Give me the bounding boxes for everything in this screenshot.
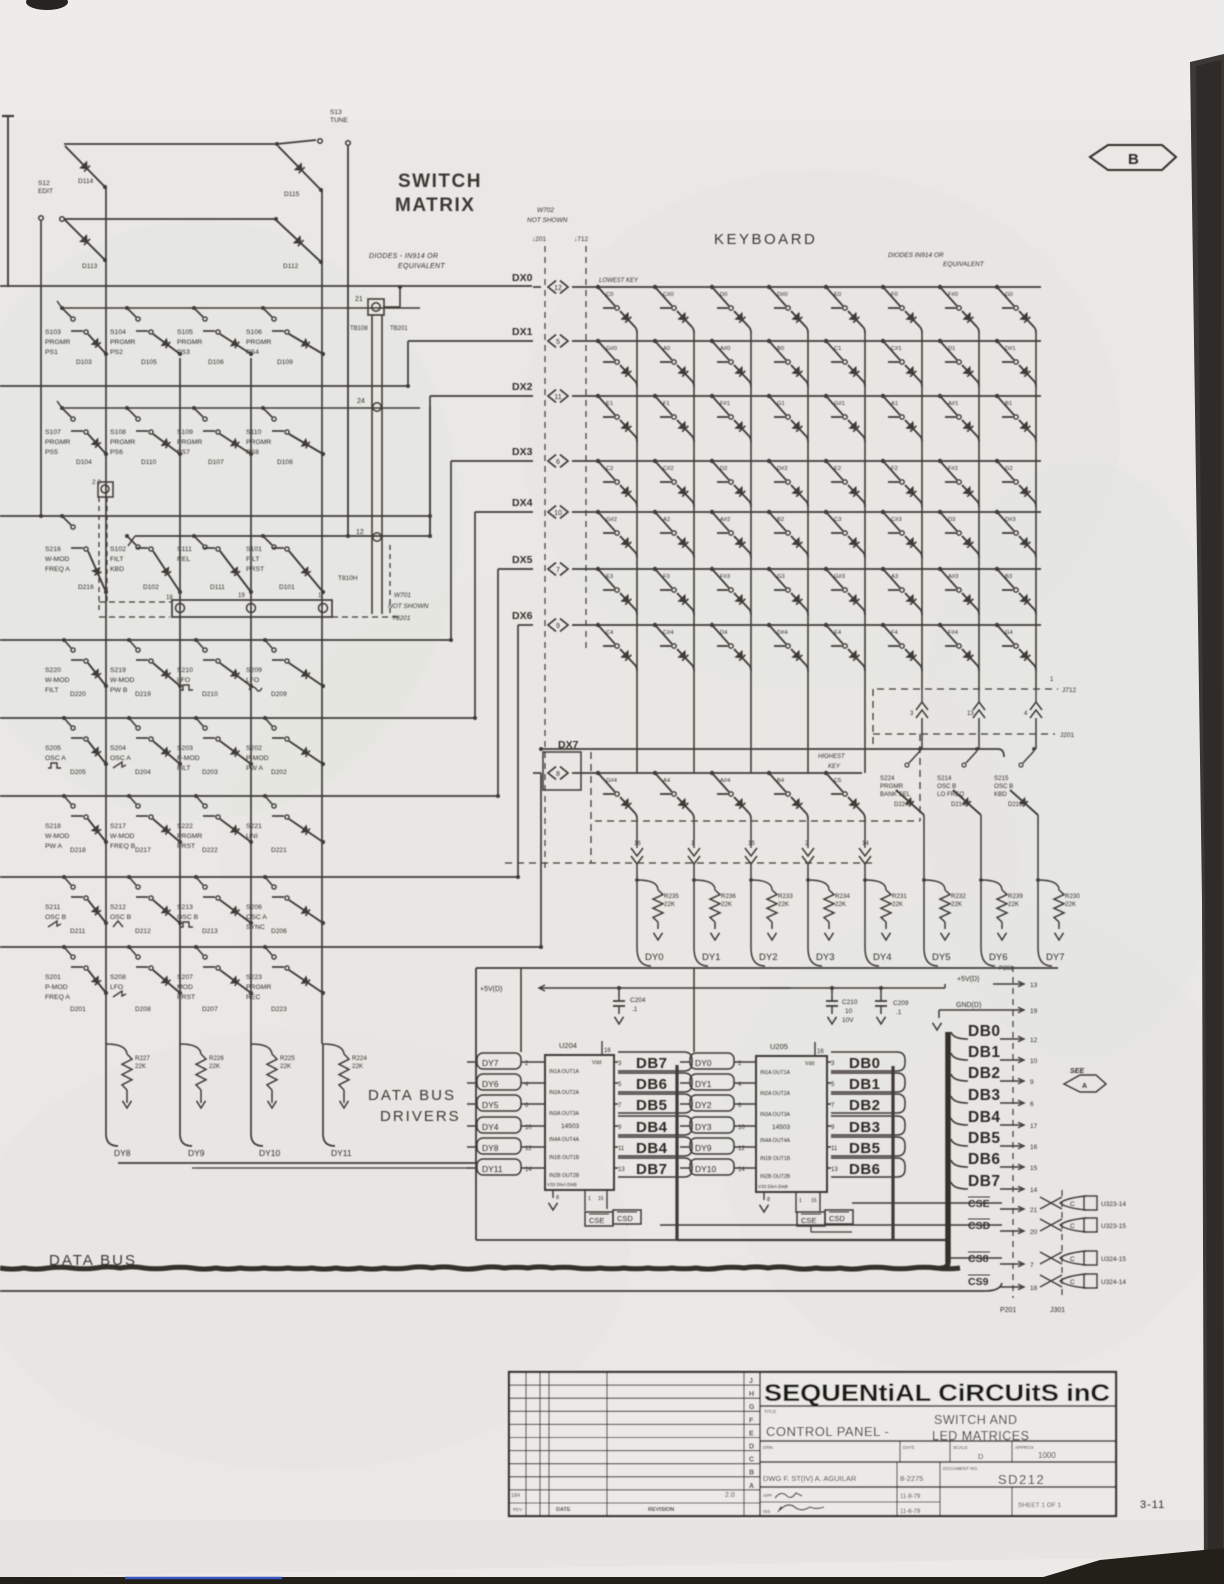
svg-text:F#1: F#1 xyxy=(720,401,730,407)
logo SEQUENTIAL CIRCUITS INC xyxy=(760,1405,1116,1407)
keyboard switch E0 xyxy=(824,285,847,310)
keyboard diode DE4 xyxy=(848,649,863,665)
svg-text:DY9: DY9 xyxy=(188,1148,205,1158)
svg-text:18: 18 xyxy=(166,595,173,601)
svg-text:DY8: DY8 xyxy=(114,1148,131,1158)
svg-text:G2: G2 xyxy=(1005,466,1013,472)
svg-text:11: 11 xyxy=(618,1146,625,1152)
svg-text:B0: B0 xyxy=(777,346,784,352)
svg-text:C: C xyxy=(1070,1201,1075,1208)
svg-text:G1: G1 xyxy=(777,401,785,407)
wire keyboard column 5 to DY bus elbow xyxy=(923,858,925,948)
keyboard switch D1 xyxy=(938,339,961,364)
svg-text:S101: S101 xyxy=(246,546,262,553)
keyboard diode DF#1 xyxy=(734,420,749,436)
svg-text:SD212: SD212 xyxy=(998,1472,1045,1487)
diode D114 xyxy=(65,146,105,187)
svg-text:D223: D223 xyxy=(271,1006,287,1013)
svg-text:G#1: G#1 xyxy=(834,401,845,407)
svg-text:B: B xyxy=(1128,151,1139,168)
keyboard switch E4 xyxy=(824,623,847,648)
svg-text:KBD: KBD xyxy=(994,791,1007,798)
keyboard switch C#4 xyxy=(653,623,676,648)
output DB6 pin 5 of U204 xyxy=(614,1073,692,1093)
svg-text:F: F xyxy=(749,1417,754,1424)
svg-text:D102: D102 xyxy=(143,584,159,591)
svg-text:D211: D211 xyxy=(70,928,86,935)
diode D106 xyxy=(208,334,253,366)
svg-text:E1: E1 xyxy=(606,401,613,407)
svg-text:C209: C209 xyxy=(893,1000,909,1007)
switch S221 UNI xyxy=(246,794,289,840)
svg-text:22K: 22K xyxy=(280,1063,292,1070)
svg-text:18: 18 xyxy=(1030,1285,1038,1292)
svg-text:C3: C3 xyxy=(834,517,841,523)
wire row 6 bus line xyxy=(0,795,498,797)
svg-text:P201: P201 xyxy=(1000,1307,1016,1314)
svg-text:S108: S108 xyxy=(110,429,126,436)
svg-text:S204: S204 xyxy=(110,745,126,752)
svg-text:R239: R239 xyxy=(1008,893,1023,900)
keyboard switch D4 xyxy=(710,623,733,648)
svg-text:P-MOD: P-MOD xyxy=(45,984,68,991)
resistor R224 22K xyxy=(323,1044,367,1108)
switch S105 PRGMR PS3 xyxy=(177,306,220,356)
input tag DY7 pin 2 of U204 xyxy=(467,1053,545,1069)
svg-text:J201: J201 xyxy=(1060,732,1074,739)
svg-text:EDIT: EDIT xyxy=(38,188,53,195)
svg-text:F2: F2 xyxy=(891,466,898,472)
svg-text:DB1: DB1 xyxy=(968,1044,1001,1061)
wire column 2 below DX7 xyxy=(750,819,752,840)
svg-text:DY4: DY4 xyxy=(482,1122,499,1132)
svg-text:SHEET 1 OF 1: SHEET 1 OF 1 xyxy=(1018,1502,1062,1509)
node CSE P201 pin 21 xyxy=(968,1197,1038,1214)
keyboard switch F2 xyxy=(881,459,904,484)
keyboard diode DA0 xyxy=(677,365,692,381)
svg-text:D202: D202 xyxy=(271,769,287,776)
svg-text:DB4: DB4 xyxy=(636,1119,668,1136)
keyboard switch G#4 xyxy=(596,771,619,796)
keyboard diode DC#4 xyxy=(677,649,692,665)
svg-text:OSC B: OSC B xyxy=(937,783,956,790)
wire column 1 lower to DY8 elbow xyxy=(106,1044,118,1146)
svg-text:D110: D110 xyxy=(141,459,157,466)
keyboard diode DB0 xyxy=(791,365,806,381)
wire keyboard column 2 to DY bus elbow xyxy=(750,864,752,948)
keyboard diode DA1 xyxy=(905,420,920,436)
dashed wire right of TB xyxy=(389,545,391,614)
keyboard switch A#0 xyxy=(710,339,733,364)
connector DX5 pin 7 xyxy=(548,563,556,576)
svg-text:8-2275: 8-2275 xyxy=(900,1474,923,1483)
svg-text:1: 1 xyxy=(588,1196,591,1202)
svg-text:FILT: FILT xyxy=(177,765,190,772)
svg-text:DB5: DB5 xyxy=(968,1130,1001,1147)
svg-text:E0: E0 xyxy=(834,292,841,298)
diode D209 xyxy=(271,663,325,698)
svg-text:DB3: DB3 xyxy=(968,1087,1001,1104)
node CS9 P201 pin 18 xyxy=(968,1275,1038,1292)
svg-text:S102: S102 xyxy=(110,546,126,553)
svg-text:CSD: CSD xyxy=(829,1214,845,1223)
svg-text:P-MOD: P-MOD xyxy=(246,755,269,762)
switch S107 PRGMR PS5 xyxy=(45,406,88,456)
keyboard diode DA#1 xyxy=(962,420,977,436)
title block row dwg number xyxy=(760,1486,1116,1488)
svg-text:D3: D3 xyxy=(948,517,955,523)
svg-text:PW B: PW B xyxy=(110,687,128,694)
svg-text:D216: D216 xyxy=(78,584,94,591)
svg-text:7: 7 xyxy=(1030,1262,1034,1269)
svg-text:FILT: FILT xyxy=(246,556,259,563)
svg-text:DY7: DY7 xyxy=(1046,952,1064,963)
svg-text:OSC A: OSC A xyxy=(110,755,131,762)
diode D102 xyxy=(143,551,182,594)
svg-text:S212: S212 xyxy=(110,904,126,911)
svg-text:D206: D206 xyxy=(271,928,287,935)
svg-text:D215: D215 xyxy=(1008,802,1023,808)
switch S219 W-MOD PW B xyxy=(110,638,153,694)
svg-text:DIODES - IN914 OR: DIODES - IN914 OR xyxy=(369,253,438,260)
wire S13 vertical to TB junction xyxy=(347,145,349,536)
svg-text:PS8: PS8 xyxy=(246,449,259,456)
svg-text:22K: 22K xyxy=(352,1063,364,1070)
svg-text:19: 19 xyxy=(1030,1008,1038,1015)
output DB1 pin 5 of U205 xyxy=(827,1073,905,1093)
svg-text:16: 16 xyxy=(1030,1144,1038,1151)
keyboard switch B4 xyxy=(767,771,790,796)
svg-text:C#0: C#0 xyxy=(663,292,674,298)
output DB4 pin 11 of U204 xyxy=(614,1137,692,1157)
keyboard diode DC#2 xyxy=(677,485,692,501)
node CS8 P201 pin 7 xyxy=(968,1252,1034,1269)
keyboard diode DF#3 xyxy=(734,593,749,609)
chip select box CSD of U204 xyxy=(613,1210,641,1224)
svg-text:NOT SHOWN: NOT SHOWN xyxy=(527,217,568,224)
svg-text:IN1A OUT1A: IN1A OUT1A xyxy=(760,1070,791,1076)
svg-text:E2: E2 xyxy=(834,466,841,472)
wire keyboard column 3 to DY bus elbow xyxy=(807,864,809,948)
svg-text:B: B xyxy=(749,1470,754,1477)
svg-text:R224: R224 xyxy=(352,1055,367,1062)
svg-text:22K: 22K xyxy=(1008,901,1020,908)
svg-text:R233: R233 xyxy=(778,893,793,900)
keyboard switch D3 xyxy=(938,510,961,535)
diode D115 xyxy=(278,146,321,190)
wire keyboard column 2 vertical xyxy=(750,333,752,773)
keyboard diode DD2 xyxy=(734,485,749,501)
keyboard diode DF0 xyxy=(905,311,920,327)
wire row 3 bus line xyxy=(0,515,430,517)
svg-text:CSD: CSD xyxy=(617,1214,633,1223)
switch S216 W-MOD FREQ A xyxy=(45,514,88,573)
svg-text:IN3A OUT3A: IN3A OUT3A xyxy=(760,1112,791,1118)
svg-text:11-6-79: 11-6-79 xyxy=(900,1509,921,1515)
svg-text:D107: D107 xyxy=(208,459,224,466)
svg-text:DATE: DATE xyxy=(556,1507,571,1513)
svg-text:S202: S202 xyxy=(246,745,262,752)
svg-text:C: C xyxy=(1070,1279,1075,1286)
diode D211 xyxy=(70,900,108,935)
wire DX6 wrap elbow xyxy=(518,624,533,626)
svg-text:E: E xyxy=(749,1430,754,1437)
svg-text:DB0: DB0 xyxy=(849,1055,881,1072)
svg-text:S220: S220 xyxy=(45,667,61,674)
wire keyboard column 6 vertical xyxy=(978,333,980,689)
wire row 8 bus line xyxy=(0,946,541,948)
svg-text:C0: C0 xyxy=(606,292,613,298)
node DB4 P201 pin 17 xyxy=(951,1109,1038,1130)
switch S206 OSC A SYNC xyxy=(246,875,289,931)
keyboard switch G3 xyxy=(767,567,790,592)
svg-text:LFO: LFO xyxy=(246,677,259,684)
input tag DY0 pin 2 of U205 xyxy=(680,1053,756,1069)
resistor R235 22K xyxy=(637,880,679,940)
svg-text:S217: S217 xyxy=(110,823,126,830)
svg-text:6: 6 xyxy=(1030,1101,1034,1108)
switch S215 OSC B KBD xyxy=(994,747,1036,798)
svg-text:DY9: DY9 xyxy=(695,1143,712,1153)
svg-text:A1: A1 xyxy=(891,401,898,407)
svg-text:D115: D115 xyxy=(284,191,300,198)
node DB2 P201 pin 9 xyxy=(951,1065,1034,1086)
svg-text:PRGMR: PRGMR xyxy=(45,439,70,446)
diode D214 xyxy=(953,790,981,815)
wire DB bundle vertical U204 xyxy=(675,1065,678,1240)
svg-text:P201: P201 xyxy=(999,966,1014,972)
svg-text:IN1B OUT1B: IN1B OUT1B xyxy=(549,1155,580,1161)
resistor R233 22K xyxy=(751,880,793,940)
keyboard switch F0 xyxy=(881,285,904,310)
svg-text:CSE: CSE xyxy=(801,1216,816,1225)
keyboard switch F#0 xyxy=(938,285,961,310)
diode D205 xyxy=(70,741,108,776)
svg-text:S209: S209 xyxy=(246,667,262,674)
thick data bus vertical xyxy=(945,1032,951,1263)
flag B marker xyxy=(1090,145,1176,170)
wire keyboard column 5 vertical xyxy=(921,333,923,689)
keyboard switch C#2 xyxy=(653,459,676,484)
svg-text:D4: D4 xyxy=(720,630,728,636)
switch S205 OSC A xyxy=(45,716,88,768)
svg-text:22K: 22K xyxy=(778,901,790,908)
keyboard switch A2 xyxy=(653,510,676,535)
svg-text:10: 10 xyxy=(554,510,562,517)
svg-text:3-11: 3-11 xyxy=(1140,1499,1165,1511)
svg-text:8: 8 xyxy=(556,771,560,778)
keyboard diode DB1 xyxy=(1019,420,1034,436)
wire row DX6 xyxy=(572,624,1041,626)
svg-text:TITLE: TITLE xyxy=(764,1409,776,1414)
dashed wire keyboard box left xyxy=(590,752,592,863)
wire column 6 below switch xyxy=(980,815,982,858)
svg-text:DB2: DB2 xyxy=(968,1065,1001,1082)
diode D212 xyxy=(135,900,182,935)
svg-text:OSC B: OSC B xyxy=(110,914,132,921)
svg-text:DX6: DX6 xyxy=(512,610,533,622)
svg-text:D103: D103 xyxy=(76,359,92,366)
keyboard diode DC4 xyxy=(620,649,635,665)
input tag DY3 pin 10 of U205 xyxy=(680,1117,756,1133)
keyboard diode DA#2 xyxy=(734,536,749,552)
wire DX2 vertical continues to row3 line xyxy=(429,407,431,536)
switch S103 PRGMR PS1 xyxy=(45,306,88,356)
svg-text:DY11: DY11 xyxy=(482,1164,503,1174)
svg-text:A3: A3 xyxy=(891,574,898,580)
svg-text:10V: 10V xyxy=(842,1017,854,1024)
keyboard switch C#1 xyxy=(881,339,904,364)
wire column 2 vertical xyxy=(179,358,181,1044)
svg-text:22K: 22K xyxy=(209,1063,221,1070)
resistor R230 22K xyxy=(1038,880,1080,940)
svg-text:APPROX: APPROX xyxy=(1015,1445,1034,1450)
svg-text:BANK SEL: BANK SEL xyxy=(880,791,911,798)
svg-text:CSD: CSD xyxy=(968,1220,991,1232)
connector DX2 pin 11 xyxy=(548,390,556,403)
svg-text:12: 12 xyxy=(554,285,562,292)
svg-text:DY8: DY8 xyxy=(482,1143,499,1153)
switch S204 OSC A xyxy=(110,716,153,768)
switch S212 OSC B xyxy=(110,875,153,927)
gate buffer U323-14 xyxy=(1040,1196,1126,1210)
ground pin 8 of U205 xyxy=(763,1192,765,1200)
svg-text:S224: S224 xyxy=(880,775,895,782)
svg-text:F4: F4 xyxy=(891,630,899,636)
keyboard switch E3 xyxy=(596,567,619,592)
svg-text:DY5: DY5 xyxy=(932,952,950,963)
svg-text:D108: D108 xyxy=(277,459,293,466)
svg-text:R236: R236 xyxy=(721,893,736,900)
svg-text:DB1: DB1 xyxy=(849,1076,881,1093)
keyboard diode DB4 xyxy=(791,797,806,813)
keyboard switch C1 xyxy=(824,339,847,364)
switch S207 MOD PRST xyxy=(177,945,220,1001)
svg-text:J301: J301 xyxy=(1050,1307,1065,1314)
connector DX4 pin 10 xyxy=(548,506,556,519)
wire keyboard column 1 vertical xyxy=(693,333,695,773)
svg-text:REVISION: REVISION xyxy=(648,1507,674,1513)
keyboard diode DA3 xyxy=(905,593,920,609)
switch S222 PRGMR PRST xyxy=(177,794,220,850)
svg-text:F0: F0 xyxy=(891,292,898,298)
dashed line J712 vertical xyxy=(585,246,587,648)
blue pen mark bottom left xyxy=(125,1577,282,1580)
svg-text:9: 9 xyxy=(556,623,560,630)
keyboard switch E1 xyxy=(596,394,619,419)
gate buffer U324-14 xyxy=(1040,1274,1126,1288)
keyboard switch B3 xyxy=(995,567,1018,592)
svg-text:FREQ A: FREQ A xyxy=(45,994,70,1001)
switch S209 LFO xyxy=(246,638,289,691)
diode D105 xyxy=(141,334,182,366)
dashed wire J201 lower horizontal xyxy=(873,733,1055,735)
svg-text:22K: 22K xyxy=(721,901,733,908)
wire DB bundle vertical U205 xyxy=(891,1066,894,1240)
keyboard diode DG1 xyxy=(791,420,806,436)
svg-text:C#4: C#4 xyxy=(663,630,674,636)
svg-text:DY0: DY0 xyxy=(645,952,663,963)
wire TB double vertical xyxy=(371,315,373,614)
svg-text:DWG F. ST(IV) A. AGUILAR: DWG F. ST(IV) A. AGUILAR xyxy=(763,1474,857,1483)
scan dark band bottom edge xyxy=(0,1556,1224,1584)
svg-text:DIODES IN914 OR: DIODES IN914 OR xyxy=(888,252,944,259)
svg-text:F#2: F#2 xyxy=(948,466,958,472)
svg-text:J: J xyxy=(749,1378,753,1385)
input tag DY6 pin 4 of U204 xyxy=(467,1074,545,1090)
svg-text:D221: D221 xyxy=(271,847,287,854)
svg-text:DX3: DX3 xyxy=(512,446,533,458)
svg-text:E4: E4 xyxy=(834,630,842,636)
svg-text:.1: .1 xyxy=(632,1006,638,1013)
wire keyboard column 0 to DY bus elbow xyxy=(636,864,638,948)
scan mark top-left dark blob xyxy=(26,0,68,10)
svg-text:D204: D204 xyxy=(135,769,151,776)
svg-text:7: 7 xyxy=(556,567,560,574)
keyboard switch D#1 xyxy=(995,339,1018,364)
wire keyboard column 4 vertical xyxy=(864,333,866,773)
svg-text:DRN: DRN xyxy=(763,1445,773,1450)
keyboard switch A#1 xyxy=(938,394,961,419)
svg-text:2.0: 2.0 xyxy=(725,1492,735,1499)
svg-text:PRGMR: PRGMR xyxy=(110,339,135,346)
svg-text:D104: D104 xyxy=(76,459,92,466)
wire column 0 below DX7 xyxy=(636,819,638,840)
dashed wire J712 lower horizontal xyxy=(877,688,1058,690)
wire keyboard column 7 to DY bus elbow xyxy=(1037,858,1039,948)
connector DX6 pin 9 xyxy=(548,619,556,632)
node DB0 P201 pin 12 xyxy=(951,1023,1038,1044)
keyboard switch G#1 xyxy=(824,394,847,419)
keyboard switch F3 xyxy=(653,567,676,592)
wire column 7 below switch xyxy=(1037,815,1039,858)
wire horizontal S12 row xyxy=(64,218,276,220)
wire DX7 feed line upper xyxy=(541,748,998,750)
switch S203 P-MOD FILT xyxy=(177,716,220,772)
switch S201 P-MOD FREQ A xyxy=(45,945,88,1001)
svg-text:DOCUMENT NO.: DOCUMENT NO. xyxy=(943,1466,978,1471)
output DB7 pin 13 of U204 xyxy=(614,1158,692,1178)
wire DX4 wrap elbow xyxy=(475,511,533,513)
svg-text:C#2: C#2 xyxy=(663,466,674,472)
svg-text:DY1: DY1 xyxy=(695,1079,712,1089)
resistor R227 22K xyxy=(106,1044,150,1108)
dashed line J201 vertical xyxy=(544,246,546,868)
svg-text:H: H xyxy=(749,1391,754,1398)
svg-text:C210: C210 xyxy=(842,999,858,1006)
svg-text:5: 5 xyxy=(556,339,560,346)
wire bundle bottom horizontal xyxy=(677,1239,946,1241)
diode D207 xyxy=(202,970,253,1013)
svg-text:DRIVERS: DRIVERS xyxy=(380,1108,461,1125)
scan dark band right edge xyxy=(1190,54,1224,1584)
input tag DY9 pin 12 of U205 xyxy=(680,1138,756,1154)
wire row DX4 xyxy=(572,511,1041,513)
svg-text:12: 12 xyxy=(356,529,364,536)
svg-text:S104: S104 xyxy=(110,329,126,336)
svg-text:S110: S110 xyxy=(246,429,262,436)
keyboard switch G#2 xyxy=(596,510,619,535)
svg-text:D224: D224 xyxy=(894,802,909,808)
diode D201 xyxy=(70,970,108,1013)
wire CS8 from bus xyxy=(950,1257,1002,1259)
diode D108 xyxy=(277,434,325,466)
keyboard diode DC5 xyxy=(848,797,863,813)
connector DX1 pin 5 xyxy=(548,335,556,348)
diode D202 xyxy=(271,741,325,776)
svg-text:LFO: LFO xyxy=(177,677,190,684)
svg-text:D220: D220 xyxy=(70,691,86,698)
